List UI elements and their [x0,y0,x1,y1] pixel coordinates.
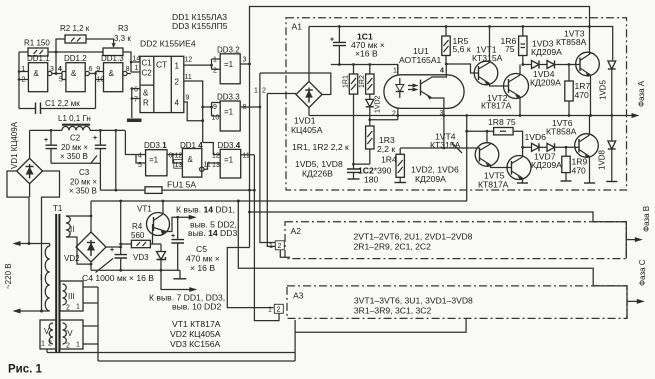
capacitor C1 [36,99,81,114]
wire VD1 top to DC bus [29,130,31,158]
wire DD1.1 out to DD1.2 in [52,72,66,80]
SEC-OSC [18,24,133,114]
diode 1VD5 [599,60,616,117]
diode 1VD4 [530,61,576,88]
svg-text:VD3 КС156А: VD3 КС156А [170,339,221,349]
transistor 1VT1 [472,45,503,86]
wire opto pin3 down [443,108,445,148]
optocoupler 1U1 [384,46,464,118]
resistor R1 [24,39,50,57]
svg-text:1VD5, 1VD8: 1VD5, 1VD8 [295,159,343,169]
resistor 1R6 [501,25,528,64]
svg-text:Рис. 1: Рис. 1 [8,364,43,376]
block A2 [285,222,626,259]
capacitor C2 [44,129,88,163]
svg-text:С4 1000 мк × 16 В: С4 1000 мк × 16 В [82,273,154,283]
svg-text:Фаза В: Фаза В [642,206,651,232]
svg-text:1: 1 [76,304,80,311]
svg-text:4: 4 [175,99,180,108]
svg-text:4: 4 [138,153,142,160]
svg-text:=1: =1 [224,156,234,165]
wire VD2 right to C4 node [106,246,121,248]
svg-text:2: 2 [262,88,266,95]
supply rail inside A1 [309,27,613,61]
wire VD2 top to 5V rail [90,201,92,232]
wire VD2 bottom to 0V row [90,262,92,270]
transistor 1VT2 [481,74,529,111]
wire 1VD2/1R3 row [370,119,398,121]
DC bus row [30,129,126,131]
svg-text:10: 10 [97,77,105,84]
bottom rail from T1 [47,320,295,361]
svg-text:Фаза С: Фаза С [638,259,647,286]
bridge rectifier VD2 [64,232,106,263]
svg-text:560: 560 [131,231,145,240]
svg-text:&: & [143,89,149,98]
svg-text:1R1, 1R2 2,2 к: 1R1, 1R2 2,2 к [292,142,349,152]
resistor R3 (preset) [103,24,131,56]
SEC-A23 [268,206,651,332]
svg-text:DD3.3: DD3.3 [217,93,240,102]
wire 1VT2 collector / diode row [520,65,531,76]
svg-text:КЦ405А: КЦ405А [291,125,323,135]
gate DD1.3 [96,54,129,92]
wire DD1.4 out to DD3.4 pin13 [204,163,220,169]
counter DD2 K155IE4 [133,39,196,113]
svg-text:С1 2,2 мк: С1 2,2 мк [45,99,80,108]
svg-text:DD2 К155ИЕ4: DD2 К155ИЕ4 [140,39,196,49]
transformer T1 core [53,204,63,353]
svg-text:I: I [40,273,42,282]
wire 1R3 to 1C2 [354,163,370,165]
diode 1VD3 [531,39,562,69]
wire DD2 R inputs 6,7 tied [132,89,140,118]
inductor L1 [58,114,91,130]
svg-text:× 350 В: × 350 В [60,152,88,161]
svg-text:1: 1 [76,342,80,349]
wire DD2 out2 (pin11) [184,81,203,143]
wire bus corner to FU1 [115,130,117,190]
svg-text:13: 13 [175,162,183,169]
resistor 1R2 [359,63,374,99]
svg-text:VD2: VD2 [64,254,80,263]
svg-text:=1: =1 [224,60,234,69]
wire DD2 out4 (pin9) [184,102,203,121]
svg-text:12: 12 [212,153,220,160]
svg-text:20 мк ×: 20 мк × [61,143,88,152]
mains input arrows ~220V [4,241,50,314]
svg-text:13: 13 [212,162,220,169]
wire R1 row [19,51,103,53]
capacitor C4 [82,200,154,283]
gate DD1.1 [22,54,55,92]
svg-text:2: 2 [392,111,396,118]
wire DD3.2 out pin3 [240,63,249,65]
svg-text:1VD5: 1VD5 [599,79,608,100]
svg-text:8: 8 [126,66,130,73]
wire bridge plus up to rail [308,27,310,82]
SEC-BUS [227,7,593,321]
resistor 1R3 [366,120,396,164]
capacitor C3 [69,129,106,196]
svg-text:2: 2 [213,68,217,75]
gate DD3.2 [213,46,247,84]
svg-text:4: 4 [58,66,62,73]
svg-text:470: 470 [575,90,590,100]
wire LED feed row [331,65,398,76]
capacitor C5 [171,217,220,273]
svg-text:1R4: 1R4 [381,155,397,165]
zener VD3 [133,244,166,272]
svg-text:9: 9 [96,66,100,73]
svg-text:С3: С3 [79,168,90,177]
svg-text:2: 2 [175,78,180,87]
svg-text:12: 12 [175,153,183,160]
svg-text:1: 1 [213,57,217,64]
transistor 1VT4 [430,131,499,167]
wire VD1 AC side left [7,171,29,244]
resistor 1R5 [442,25,471,64]
wire R3 to node [123,52,131,72]
svg-text:КТ858А: КТ858А [546,127,577,137]
transistor VT1 [137,200,170,236]
svg-text:FU1 5А: FU1 5А [167,180,196,190]
svg-text:К выв. 14 DD1,: К выв. 14 DD1, [176,205,235,215]
svg-text:КД209А: КД209А [531,160,562,170]
fuse FU1 [100,180,254,194]
wire bridge minus down to output row [308,108,310,116]
svg-text:1VD8: 1VD8 [598,149,607,170]
wire DD1.1 inputs [19,52,28,109]
svg-text:1: 1 [268,307,272,314]
svg-text:DD1.2: DD1.2 [64,54,87,63]
svg-text:=1: =1 [149,156,159,165]
resistor 1R4 [381,148,406,183]
wire second feed to A2 [250,212,594,222]
svg-text:470 мк ×: 470 мк × [186,254,220,264]
5V rail continuing right to A2 [91,200,467,202]
wire DD3.1 inputs from bus row [125,131,145,163]
gate DD3.4 [212,141,250,178]
svg-text:5: 5 [59,77,63,84]
wire DD1.2 out to DD1.3 in [89,72,103,109]
wire A2 terminal2 bottom stub [280,250,290,257]
svg-text:DD3 К155ЛП5: DD3 К155ЛП5 [172,21,228,31]
svg-text:1: 1 [254,88,258,95]
svg-text:КТ817А: КТ817А [481,101,512,111]
wire 1VT1 emitter to 1VT2 base [490,84,509,87]
svg-text:1R8 75: 1R8 75 [488,117,516,127]
svg-text:× 16 В: × 16 В [190,263,215,273]
svg-text:2VT1–2VT6, 2U1, 2VD1–2VD8: 2VT1–2VT6, 2U1, 2VD1–2VD8 [354,232,473,242]
wire 1VT6 emitter to common [589,157,591,184]
svg-text:КД209А: КД209А [415,174,446,184]
wire winding IV feed up into A3 [295,318,466,332]
svg-text:180: 180 [364,175,379,185]
wire terminal1 into A1 [260,73,331,95]
wire DD3.1 out to DD1.4 inputs [167,155,182,164]
diode 1VD2 [366,95,382,119]
gate DD3.3 [212,93,247,132]
svg-text:&: & [34,69,40,78]
capacitor 1C2 [347,166,392,185]
gate DD1.4 [174,141,211,177]
wire VD1 bottom stub [29,184,31,197]
wire terminal-1 vertical down to A2 and A3 [260,73,275,243]
svg-text:2: 2 [66,343,70,350]
resistor R2 [60,24,90,43]
wire DD3.4 out vertical down to A3 terminal 2 [254,155,279,321]
svg-text:2R1–2R9, 2С1, 2С2: 2R1–2R9, 2С1, 2С2 [354,242,432,252]
wire DD3.4 out pin11 [241,154,255,156]
svg-text:КД226В: КД226В [302,169,333,179]
wire terminal2 into A1 [267,93,296,95]
svg-text:11: 11 [243,153,250,160]
svg-text:1VD2: 1VD2 [375,95,382,113]
svg-text:&: & [109,69,115,78]
svg-text:DD3.2: DD3.2 [217,46,240,55]
transistor 1VT5 [478,155,531,190]
resistor 1R9 [561,147,588,181]
node R1-R2 junction [55,51,58,54]
wire DD2 out1 (pin12) [184,64,212,66]
bridge rectifier VD1 [17,158,43,183]
svg-text:7: 7 [134,97,138,104]
svg-text:выв. 14 DD3: выв. 14 DD3 [188,228,237,238]
svg-text:3: 3 [243,57,247,64]
diode row second channel [523,146,531,148]
transistor 1VT6 [546,118,598,159]
svg-text:3,3 к: 3,3 к [114,34,131,43]
svg-text:1VD6: 1VD6 [525,132,547,142]
svg-text:+: + [110,247,114,254]
svg-text:×16 В: ×16 В [355,49,378,59]
output arrow Faza C [627,300,641,302]
svg-text:4: 4 [440,68,444,75]
diode 1VD6 [525,132,548,151]
svg-text:А1: А1 [292,22,303,32]
svg-text:Фаза А: Фаза А [637,80,646,107]
svg-text:С5: С5 [196,244,207,254]
svg-text:R1 150: R1 150 [24,39,50,48]
svg-text:С1: С1 [142,59,153,68]
svg-text:R2 1,2 к: R2 1,2 к [60,24,90,33]
svg-text:20 мк ×: 20 мк × [70,178,97,187]
wire to DD3.4 pin12 [203,143,221,155]
svg-text:1: 1 [269,243,273,250]
winding III [60,281,98,361]
svg-text:1R1: 1R1 [343,75,350,88]
svg-text:С2: С2 [70,134,81,143]
svg-text:2: 2 [277,307,281,314]
wire supply to A3 [238,201,593,286]
SEC-DD3 [125,12,261,178]
svg-text:9: 9 [186,95,190,102]
svg-text:1: 1 [393,68,397,75]
svg-text:А2: А2 [291,226,302,236]
svg-text:&: & [188,155,194,164]
block A3 [287,286,627,319]
svg-text:КД209А: КД209А [530,78,561,88]
resistor 1R8 [465,114,524,201]
svg-text:L1 0,1 Гн: L1 0,1 Гн [58,114,91,123]
bridge rectifier 1VD1 [291,81,323,135]
gate DD1.2 [58,54,93,92]
wire DD2 clock inputs [131,62,140,72]
svg-text:1VD2, 1VD6: 1VD2, 1VD6 [411,165,459,175]
wire R2 to R3 arrow [86,39,114,44]
0V row with ground [91,269,180,271]
svg-text:R3: R3 [118,24,129,33]
svg-text:11: 11 [185,74,192,81]
SEC-A1 [254,18,646,201]
svg-text:6: 6 [134,87,138,94]
svg-text:75: 75 [505,44,515,54]
winding V [40,320,56,353]
svg-text:6: 6 [89,66,93,73]
wire A2 right border solid segment [593,222,626,259]
svg-text:5,6 к: 5,6 к [453,44,471,54]
wire 1VT1 collector to rail [489,27,491,63]
wire VT1 emitter row with arrow [166,217,193,231]
wire DD3.3 inputs tied [203,103,221,117]
svg-text:1: 1 [175,62,180,71]
wire top rail 1 [250,7,590,65]
wire 1VT3 emitter down to output row [590,75,592,116]
svg-text:+: + [44,137,48,144]
svg-text:DD1.1: DD1.1 [27,54,50,63]
wire 1R5 bottom to opto pin4 and 1VT1 base [446,64,478,75]
svg-text:VT1: VT1 [137,205,152,214]
svg-text:=1: =1 [224,108,234,117]
wire 1VT2 emitter down to output row [519,97,521,116]
svg-text:9: 9 [213,104,217,111]
winding II [66,215,92,266]
svg-text:12: 12 [185,57,193,64]
SEC-DD2 [127,39,220,155]
resistor 1R1 [343,63,358,169]
gate DD3.1 [138,141,173,176]
svg-text:VT1 КТ817А: VT1 КТ817А [172,319,221,329]
wire opto pin1 [397,65,399,75]
svg-text:КТ817А: КТ817А [478,180,509,190]
svg-text:2,2 к: 2,2 к [377,144,395,154]
wire 1VT3 collector up [588,25,591,28]
block A1 border [286,18,627,190]
wire link A2 terminal2 to A3 terminal1 [227,248,273,308]
wire VD1 AC side right [42,171,60,311]
svg-text:1R2: 1R2 [359,75,366,88]
wire DD3.3 out pin8 [240,106,260,108]
wire DD1.3 out [127,73,131,75]
transistor 1VT3 [556,29,599,78]
output arrow Faza B [626,239,639,241]
svg-text:&: & [71,69,77,78]
svg-text:1: 1 [41,341,45,348]
svg-text:× 350 В: × 350 В [69,187,97,196]
wire C2/C3 bottom row [51,163,100,190]
svg-text:VD2 КЦ405А: VD2 КЦ405А [170,329,221,339]
svg-text:3: 3 [50,66,54,73]
svg-text:Т1: Т1 [53,204,63,213]
resistor 1R7 [565,65,591,117]
wire C1 loop bottom [19,108,96,110]
svg-text:DD3.4: DD3.4 [218,141,241,150]
output row Faza A [309,115,636,117]
svg-text:2: 2 [66,305,70,312]
diode 1VD8 [598,116,618,182]
SEC-POWER [4,114,254,314]
svg-text:VD3: VD3 [133,253,149,262]
svg-text:1VD1: 1VD1 [294,116,316,126]
svg-text:VD1 КЦ409А: VD1 КЦ409А [10,121,19,169]
wire A3 right border solid segment [593,286,627,319]
svg-text:DD3.1: DD3.1 [144,141,167,150]
winding I (primary) [40,244,50,312]
svg-text:1: 1 [135,65,139,72]
resistor R4 [131,222,150,248]
svg-text:АОТ165А1: АОТ165А1 [399,55,442,65]
svg-text:3VT1–3VT6, 3U1, 3VD1–3VD8: 3VT1–3VT6, 3U1, 3VD1–3VD8 [354,296,473,306]
wire 1VT4 emitter to 1VT5 base [491,165,512,168]
svg-text:КД209А: КД209А [531,47,562,57]
SEC-REG [64,200,467,350]
svg-text:КТ858А: КТ858А [556,37,587,47]
capacitor 1C1 [330,25,385,66]
svg-text:~220 В: ~220 В [4,263,13,289]
svg-text:СТ: СТ [156,60,168,70]
winding IV [60,320,98,350]
svg-text:R: R [143,99,149,108]
wire terminal-2 vertical down to A2 terminal 2 [267,94,275,247]
wire 1VT6 collector to output row [589,116,591,136]
wire vertical from pin3 down to 5V rail [249,64,251,248]
wire opto pin2 down [397,108,399,119]
svg-text:С2: С2 [142,69,153,78]
ground under DD2 [127,119,142,123]
svg-text:470: 470 [572,166,587,176]
svg-text:R4: R4 [132,222,143,231]
svg-text:+: + [93,135,97,142]
svg-text:2: 2 [278,243,282,250]
diode 1VD7 [531,143,576,170]
svg-text:выв. 10 DD2: выв. 10 DD2 [172,302,221,312]
svg-text:А3: А3 [293,291,304,301]
svg-text:DD1.3: DD1.3 [101,54,124,63]
wire base row from 1R4/pin3 to 1VT4 [400,147,479,149]
wire R4 left to C4 node / base [121,224,161,244]
svg-text:3R1–3R9, 3С1, 3С2: 3R1–3R9, 3С1, 3С2 [354,306,432,316]
wire to K vyv 7 with arrow [161,270,194,289]
svg-text:III: III [68,292,75,301]
wire DD3.2 inputs tied [212,59,221,69]
SEC-T1 [40,204,295,361]
